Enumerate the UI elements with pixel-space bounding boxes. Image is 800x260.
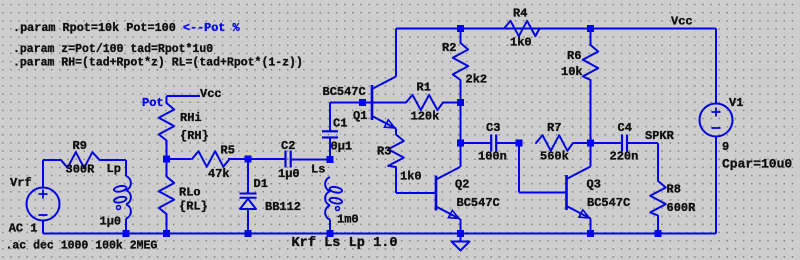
junction Q3 emitter-bus	[587, 230, 594, 237]
capacitor C2	[286, 151, 291, 168]
svg-text:R4: R4	[513, 7, 527, 21]
svg-text:R3: R3	[377, 145, 391, 159]
svg-text:.param z=Pot/100 tad=Rpot*1u0: .param z=Pot/100 tad=Rpot*1u0	[13, 43, 213, 56]
junction R6/R7/C4/Q3 collector	[587, 140, 594, 147]
wire RLo bottom lead	[166, 214, 168, 234]
resistor R6	[583, 45, 598, 80]
svg-text:Krf Ls Lp 1.0: Krf Ls Lp 1.0	[292, 236, 398, 251]
junction R5/D1/C2	[245, 156, 252, 163]
svg-text:1m0: 1m0	[337, 213, 359, 227]
wire Q1 emitter to R3	[395, 129, 397, 135]
svg-text:C1: C1	[333, 116, 347, 130]
svg-text:C4: C4	[618, 121, 632, 135]
svg-text:C2: C2	[281, 139, 295, 153]
svg-text:.param Rpot=10k Pot=100 <--Pot: .param Rpot=10k Pot=100 <--Pot %	[13, 21, 240, 35]
svg-text:1k0: 1k0	[510, 36, 532, 50]
voltage source V1	[700, 104, 733, 137]
svg-text:Vrf: Vrf	[10, 176, 32, 190]
wire Q2 collector up	[460, 143, 462, 167]
wire R6 bottom to junction	[590, 80, 592, 143]
svg-text:AC 1: AC 1	[9, 221, 38, 235]
svg-text:1µ0: 1µ0	[100, 215, 122, 229]
capacitor C4	[622, 135, 627, 152]
wire Q1 collector up to rail	[395, 29, 397, 77]
svg-text:600R: 600R	[667, 201, 697, 215]
wire rail corner down to V1	[715, 29, 717, 105]
wire: top Vcc rail y=28.5	[396, 28, 716, 30]
junction Ls-bus	[327, 230, 334, 237]
wire column down to C3 junction	[460, 103, 462, 144]
wire Lp bottom lead	[125, 219, 127, 234]
wire D1 top lead	[247, 159, 249, 193]
svg-text:BC547C: BC547C	[457, 196, 500, 210]
resistor R1	[406, 95, 443, 110]
wire C1 bottom lead	[329, 138, 331, 160]
svg-text:BC547C: BC547C	[323, 85, 366, 99]
wire Q2 emitter down	[460, 219, 462, 234]
svg-text:1k0: 1k0	[400, 170, 422, 184]
wire Q3 emitter down	[590, 219, 592, 234]
transistor Q3	[559, 167, 591, 219]
wire C2 to Ls junction	[291, 159, 330, 161]
wire Q3 base run	[518, 143, 520, 193]
wire R7 right to R6 column	[573, 142, 591, 144]
junction R2 top on rail	[457, 25, 464, 32]
svg-text:V1: V1	[729, 96, 743, 110]
wire D1 bottom lead	[247, 209, 249, 234]
resistor R7	[536, 135, 573, 151]
svg-text:{RL}: {RL}	[179, 200, 208, 214]
svg-text:9: 9	[722, 140, 729, 154]
diode D1 (varactor BB112)	[240, 194, 257, 210]
svg-text:Cpar=10u0: Cpar=10u0	[722, 157, 792, 172]
junction Q2 emitter-bus	[457, 230, 464, 237]
svg-text:2k2: 2k2	[466, 73, 488, 87]
junction R1/R2	[457, 99, 464, 106]
wire R1 right to column	[443, 102, 461, 104]
wire R5 to D1 junction	[228, 158, 248, 160]
resistor R4	[504, 21, 540, 36]
junction Q1 base pin	[359, 99, 366, 106]
wire rail to R6	[590, 29, 592, 46]
junction D1-bus	[245, 230, 252, 237]
svg-text:BC547C: BC547C	[587, 196, 630, 210]
svg-text:0µ1: 0µ1	[331, 140, 353, 154]
svg-text:47k: 47k	[208, 167, 230, 181]
resistor R3	[388, 135, 404, 168]
svg-text:120k: 120k	[411, 110, 440, 124]
junction Lp-bus	[123, 230, 130, 237]
svg-text:Pot: Pot	[142, 96, 164, 110]
capacitor C1	[322, 131, 338, 137]
svg-text:Vcc: Vcc	[200, 87, 222, 101]
svg-text:10k: 10k	[561, 65, 583, 79]
wire rail to R2	[460, 29, 462, 44]
wire C3 to R7 junction	[496, 142, 519, 144]
wire junction to RLo	[166, 159, 168, 177]
wire Vrf top lead	[42, 160, 44, 188]
svg-text:Vcc: Vcc	[671, 15, 693, 29]
resistor R5	[192, 151, 230, 167]
svg-text:100n: 100n	[478, 150, 507, 164]
inductor Ls coil	[325, 177, 342, 220]
svg-text:SPKR: SPKR	[645, 129, 675, 143]
svg-text:{RH}: {RH}	[180, 129, 209, 143]
resistor RHi	[159, 103, 174, 141]
wire V1 bottom lead	[715, 136, 717, 234]
svg-text:R7: R7	[547, 121, 561, 135]
svg-text:220n: 220n	[610, 150, 639, 164]
wire RHi top corner to Vcc flag	[166, 96, 168, 103]
wire Ls bottom lead	[329, 220, 331, 234]
svg-text:RLo: RLo	[179, 186, 201, 200]
resistor R9	[61, 152, 100, 168]
svg-text:R1: R1	[417, 81, 431, 95]
svg-text:R8: R8	[667, 183, 681, 197]
wire Q3 collector up	[590, 143, 592, 167]
svg-text:1µ0: 1µ0	[278, 167, 300, 181]
svg-text:R5: R5	[221, 144, 235, 158]
inductor Lp coil	[114, 176, 131, 219]
svg-text:560k: 560k	[540, 150, 569, 164]
voltage source Vrf	[27, 188, 60, 221]
svg-text:Lp: Lp	[107, 162, 121, 176]
wire R2 bottom to R1 junction	[460, 80, 462, 103]
junction R8-bus	[655, 230, 662, 237]
junction RHi/RLo/R5	[163, 156, 170, 163]
wire junction to C3	[461, 142, 492, 144]
svg-text:RHi: RHi	[180, 111, 202, 125]
wire Vrf bottom lead	[42, 221, 44, 234]
svg-text:R6: R6	[567, 49, 581, 63]
resistor R2	[453, 43, 468, 80]
wire R8 bottom lead	[657, 216, 659, 234]
wire junction to R5	[167, 158, 192, 160]
ground flag below Q2	[452, 234, 470, 251]
wire: bottom ground bus y=233.5	[43, 233, 716, 235]
resistor RLo	[159, 177, 174, 215]
svg-text:C3: C3	[486, 121, 500, 135]
svg-text:BB112: BB112	[265, 200, 301, 214]
junction C3/R7/Q3 base	[516, 140, 523, 147]
wire R9 to Lp corner	[100, 159, 127, 161]
wire R3 bottom to Q2 base	[395, 167, 397, 193]
svg-text:Ls: Ls	[311, 163, 325, 177]
resistor R8	[650, 181, 666, 216]
wire C4 to SPKR corner	[627, 142, 658, 144]
junction C2/C1/Ls	[327, 156, 334, 163]
svg-text:Q3: Q3	[587, 178, 601, 192]
svg-text:Q2: Q2	[455, 178, 469, 192]
svg-text:R9: R9	[73, 139, 87, 153]
svg-text:Q1: Q1	[353, 109, 367, 123]
wire RHi bottom to junction	[166, 141, 168, 160]
transistor Q2	[429, 167, 461, 219]
capacitor C3	[491, 135, 496, 152]
svg-text:D1: D1	[254, 177, 268, 191]
wire junction to C4	[591, 142, 623, 144]
junction C3/Q2 collector	[457, 140, 464, 147]
svg-text:.ac dec 1000 100k 2MEG: .ac dec 1000 100k 2MEG	[6, 240, 158, 253]
svg-text:.param RH=(tad+Rpot*z) RL=(tad: .param RH=(tad+Rpot*z) RL=(tad+Rpot*(1-z…	[13, 57, 303, 70]
junction RLo-bus	[163, 230, 170, 237]
svg-text:300R: 300R	[66, 163, 96, 177]
wire Vrf top to R9	[43, 159, 61, 161]
wire C1 top lead and base run to Q1/R1	[329, 103, 331, 132]
transistor Q1	[365, 77, 397, 129]
svg-text:R2: R2	[442, 41, 456, 55]
junction R6 top on rail	[587, 25, 594, 32]
wire junction to C2	[248, 158, 285, 160]
